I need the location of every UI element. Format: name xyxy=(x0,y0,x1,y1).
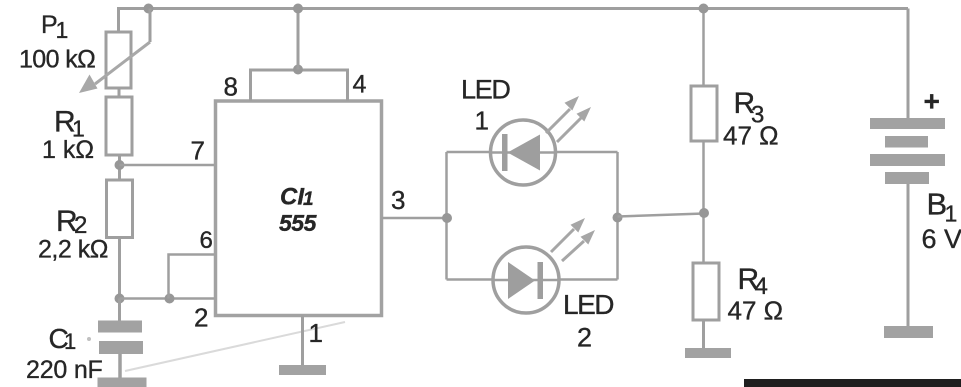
svg-text:47 Ω: 47 Ω xyxy=(723,121,779,151)
IC CI1 555 body xyxy=(216,101,382,316)
wire pin 3 xyxy=(382,217,447,220)
wire rail drop to P1 top xyxy=(117,9,120,34)
node junction R3/R4 xyxy=(699,208,709,218)
label R4 xyxy=(738,263,768,300)
wire pin 2 run xyxy=(120,297,216,300)
scan artifact dark bar bottom right xyxy=(744,379,961,387)
svg-text:LED: LED xyxy=(461,75,510,105)
label CI1 xyxy=(280,184,314,211)
wire R1 to node xyxy=(118,155,121,180)
svg-text:2: 2 xyxy=(194,303,208,333)
node junction R2/C1 xyxy=(115,294,125,304)
svg-text:47 Ω: 47 Ω xyxy=(728,296,784,326)
wire pin 7 xyxy=(120,164,216,167)
svg-text:1: 1 xyxy=(475,106,489,136)
svg-text:1: 1 xyxy=(64,329,76,354)
svg-text:6: 6 xyxy=(200,227,213,254)
svg-text:6 V: 6 V xyxy=(922,224,961,254)
node junction pin6 drop xyxy=(165,294,175,304)
svg-text:LED: LED xyxy=(563,289,613,320)
label P1 xyxy=(41,11,68,43)
LED D2 xyxy=(493,218,595,313)
svg-text:CI: CI xyxy=(280,184,305,211)
node junction rail/R3 xyxy=(699,4,709,14)
wire P1 to R1 xyxy=(118,88,121,97)
scan artifact streak xyxy=(125,322,345,371)
label R1 xyxy=(54,106,85,142)
node junction rail/bracket xyxy=(293,4,303,14)
ground pin 1 xyxy=(279,365,326,375)
svg-text:8: 8 xyxy=(224,72,238,102)
node junction LED right xyxy=(613,213,623,223)
wire LED top branch xyxy=(447,151,618,154)
label LED 1 xyxy=(461,75,510,136)
ground C1 xyxy=(98,378,147,387)
ground battery xyxy=(884,326,933,338)
wire LED right vertical xyxy=(616,152,619,280)
wire node to C1 xyxy=(118,299,121,322)
wire R2 to bottom node xyxy=(118,238,121,299)
svg-text:1 kΩ: 1 kΩ xyxy=(42,136,94,164)
wire wiper drop from rail xyxy=(149,9,152,43)
label B1 xyxy=(927,187,958,227)
capacitor C1 xyxy=(98,321,143,355)
node junction R1/R2/pin7 xyxy=(115,160,125,170)
battery B1 xyxy=(870,118,945,184)
label R2 xyxy=(56,205,87,239)
scan artifact dot xyxy=(87,337,91,341)
label R3 xyxy=(734,87,765,129)
wire LED to R3/R4 node xyxy=(618,214,705,217)
node junction pin3/LED left xyxy=(442,213,452,223)
wire rail to battery xyxy=(907,9,910,119)
svg-text:555: 555 xyxy=(279,210,318,236)
svg-text:1: 1 xyxy=(945,201,958,227)
svg-text:2,2 kΩ: 2,2 kΩ xyxy=(38,236,108,264)
label LED 2 xyxy=(563,289,613,353)
svg-text:2: 2 xyxy=(577,323,592,353)
resistor R1 xyxy=(106,97,132,155)
resistor R4 xyxy=(693,263,719,320)
wire R3 to node xyxy=(702,141,705,263)
svg-text:1: 1 xyxy=(309,318,323,348)
svg-text:3: 3 xyxy=(391,185,405,215)
svg-text:+: + xyxy=(924,86,940,117)
wire top supply rail xyxy=(117,7,908,10)
LED D1 xyxy=(491,96,592,185)
node junction top-left (wiper tap) xyxy=(144,4,154,14)
label C1 xyxy=(49,323,77,354)
svg-text:7: 7 xyxy=(191,136,205,166)
wire pin 6 loop xyxy=(169,255,216,299)
svg-text:220 nF: 220 nF xyxy=(26,356,103,384)
wire pins 8-4 bracket xyxy=(251,70,348,101)
wire rail to bracket xyxy=(297,9,300,70)
potentiometer P1 xyxy=(79,32,150,93)
wire LED left vertical xyxy=(445,152,448,280)
wire battery to ground xyxy=(907,184,910,326)
wire C1 to ground xyxy=(118,354,122,378)
ground R4 xyxy=(685,348,731,358)
node junction bracket top xyxy=(293,65,303,75)
svg-text:100 kΩ: 100 kΩ xyxy=(19,46,95,74)
wire R4 to ground xyxy=(702,320,705,348)
wire pin 1 xyxy=(301,316,304,366)
wire LED bottom branch xyxy=(447,278,618,281)
svg-text:1: 1 xyxy=(56,17,69,43)
resistor R2 xyxy=(107,180,133,238)
svg-text:1: 1 xyxy=(303,189,314,210)
resistor R3 xyxy=(691,86,717,141)
svg-text:4: 4 xyxy=(353,71,367,99)
wire rail to R3 xyxy=(702,9,705,87)
